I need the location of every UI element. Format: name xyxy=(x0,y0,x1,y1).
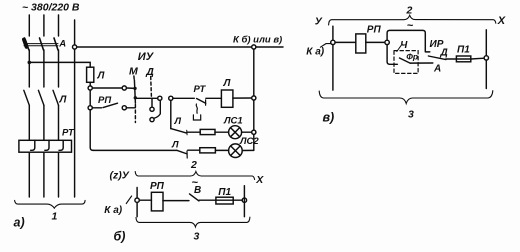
node right rail top terminal xyxy=(252,45,256,49)
switch A label xyxy=(58,38,66,49)
junction dot M bridge bottom xyxy=(134,96,137,99)
box Ch dashed xyxy=(394,51,418,74)
label LS2 xyxy=(239,136,259,147)
wire L2 mid xyxy=(43,50,45,87)
label 3 (b) xyxy=(194,231,200,243)
node row B right terminal xyxy=(122,106,126,110)
mark slash to a) (v) xyxy=(320,44,330,48)
wire LS2 mid-left xyxy=(188,149,200,151)
svg-text:ЛС1: ЛС1 xyxy=(223,115,243,126)
label RP contact xyxy=(98,95,111,106)
label 1 xyxy=(52,211,58,223)
svg-text:б): б) xyxy=(114,230,126,244)
wire control tap horizontal xyxy=(29,62,90,67)
svg-text:ЛС2: ЛС2 xyxy=(239,136,259,147)
thermal relay RT divider 1 xyxy=(31,140,35,150)
svg-text:П1: П1 xyxy=(457,45,470,56)
label 3 (v) xyxy=(408,108,414,120)
svg-text:Д: Д xyxy=(145,66,154,78)
node left terminal (b) xyxy=(135,198,139,202)
node row A right terminal xyxy=(122,86,126,90)
coil L (contactor) xyxy=(221,90,233,107)
supply label ~380/220 V xyxy=(22,2,80,14)
svg-text:2: 2 xyxy=(406,4,413,16)
wire lower branch into box (v) xyxy=(387,45,397,65)
thermal element RT xyxy=(193,104,200,120)
junction dot L1 control tap xyxy=(28,61,32,65)
annotation line 2 (v) xyxy=(329,15,496,25)
label tilde (b) xyxy=(192,177,199,189)
contact L aux LS1 tick xyxy=(186,130,188,135)
bracket 3 (v) xyxy=(319,91,493,104)
wire row A-B left link xyxy=(89,90,91,106)
svg-text:Х: Х xyxy=(255,174,264,186)
wire L3 lower xyxy=(58,105,60,140)
label P1 (v) xyxy=(457,45,470,56)
svg-text:Л: Л xyxy=(174,116,182,127)
wire LS1 right xyxy=(242,131,252,133)
contact D relay IR blade xyxy=(428,56,446,60)
label RT xyxy=(62,128,75,139)
wire (v) coil to junction xyxy=(366,41,385,43)
svg-text:ИУ: ИУ xyxy=(138,51,155,63)
label L main contacts xyxy=(59,95,68,106)
wire L3 bottom xyxy=(58,152,60,197)
wire (b) coil to switch xyxy=(163,200,189,202)
svg-text:РП: РП xyxy=(150,181,165,192)
svg-text:Х: Х xyxy=(497,15,506,27)
label X (b) xyxy=(255,174,264,186)
wire L2 bottom xyxy=(43,152,45,197)
wire bypass top (v) xyxy=(387,30,430,52)
switch A tie bar xyxy=(24,43,58,45)
node D button terminal upper xyxy=(150,107,154,111)
label U (v) xyxy=(315,16,323,28)
node neutral terminal xyxy=(73,45,77,49)
button M actuator dashed bottom xyxy=(134,105,136,123)
label D xyxy=(145,66,154,78)
svg-text:РП: РП xyxy=(98,95,111,106)
button D actuator dashed xyxy=(150,77,153,97)
wire L3 mid xyxy=(58,50,60,87)
svg-text:1: 1 xyxy=(52,211,58,223)
wire L1 mid xyxy=(28,50,30,87)
coil RP (b) xyxy=(151,192,163,211)
resistor LS2 xyxy=(200,148,216,153)
svg-text:3: 3 xyxy=(408,108,414,120)
wire D button drop xyxy=(151,98,153,107)
svg-text:П1: П1 xyxy=(218,187,231,198)
wire top line to K b) or v) xyxy=(77,46,283,48)
svg-text:РП: РП xyxy=(367,24,382,35)
lamp LS2 xyxy=(229,144,243,158)
wire row C to RT contact xyxy=(173,97,194,99)
svg-text:К а): К а) xyxy=(104,205,122,216)
wire LS1 mid xyxy=(215,131,229,133)
wire row B to M column xyxy=(126,107,135,109)
svg-text:Д: Д xyxy=(440,47,448,58)
wire L1 bottom xyxy=(28,152,30,197)
svg-text:В: В xyxy=(194,185,201,196)
wire right rail (b) xyxy=(243,186,245,217)
wire neutral L4 xyxy=(74,20,76,197)
contact RT tick xyxy=(205,100,207,105)
thermal relay RT divider 3 xyxy=(59,140,63,150)
node row C terminal 2 xyxy=(169,96,173,100)
label K a) (v) xyxy=(306,47,324,58)
wire right rail (v) xyxy=(485,30,487,56)
switch A blade 2 xyxy=(40,38,44,50)
resistor LS1 xyxy=(200,129,215,134)
fuse L (control) xyxy=(87,67,94,82)
label a) xyxy=(14,216,25,230)
wire left rail down to LS2 branch xyxy=(90,110,93,150)
svg-text:А: А xyxy=(58,38,66,49)
wire L2 lower xyxy=(43,105,45,140)
label RP (v) xyxy=(367,24,382,35)
button M actuator dashed top xyxy=(133,76,135,80)
mark leader Ch xyxy=(397,45,402,52)
contact D button blade xyxy=(154,101,161,118)
wire D contact to fuse xyxy=(446,58,457,60)
node row A left terminal xyxy=(88,86,92,90)
label P1 (b) xyxy=(218,187,231,198)
node D button terminal lower xyxy=(150,118,154,122)
button M bridge solid xyxy=(134,80,135,103)
node right rail coil terminal xyxy=(252,96,256,100)
wire RT to coil L xyxy=(206,97,222,99)
wire phase L2 top xyxy=(43,15,45,36)
switch A blade 1 with handle xyxy=(25,38,29,50)
label IU xyxy=(138,51,155,63)
wire fuse to row A xyxy=(89,82,91,86)
switch A blade 3 xyxy=(54,38,58,50)
svg-text:К а): К а) xyxy=(306,47,324,58)
svg-text:РТ: РТ xyxy=(194,84,207,95)
svg-text:Л: Л xyxy=(171,139,179,150)
label IR xyxy=(430,39,444,50)
wire out of box to node A xyxy=(410,62,433,64)
label (z)U xyxy=(110,170,130,182)
svg-text:РТ: РТ xyxy=(62,128,75,139)
thermal relay RT divider 2 xyxy=(45,140,49,150)
label K b) ili v) xyxy=(233,35,282,46)
wire row B left stub xyxy=(92,107,101,109)
node right rail LS1 terminal xyxy=(252,130,256,134)
label V xyxy=(194,185,201,196)
svg-text:2: 2 xyxy=(190,159,197,171)
svg-text:У: У xyxy=(315,16,323,28)
contact RP blade xyxy=(103,103,118,107)
node right terminal (b) xyxy=(242,198,246,202)
wire fuse to right rail (v) xyxy=(471,57,484,60)
contact L aux LS1 blade xyxy=(171,129,186,133)
contact L aux LS2 tick xyxy=(186,151,188,158)
label Ch xyxy=(400,40,408,51)
wire LS1 left xyxy=(187,131,200,133)
wire coil to right rail xyxy=(233,97,252,99)
fuse P1 (v) xyxy=(456,56,470,62)
wire (b) left xyxy=(139,199,151,201)
label tilde (v) xyxy=(407,20,414,32)
thermal relay RT heater block xyxy=(19,140,72,152)
wire left rail (b) xyxy=(136,188,138,217)
bracket 3 (b) xyxy=(136,217,250,227)
node row C terminal 1 xyxy=(158,96,162,100)
wire L1 lower xyxy=(28,105,30,140)
wire LS2 right xyxy=(242,149,254,151)
label b) xyxy=(114,230,126,244)
node left terminal (v) xyxy=(331,40,335,44)
junction dot M bridge top xyxy=(133,87,136,90)
label L fuse xyxy=(97,71,106,82)
node right terminal (v) xyxy=(484,56,488,60)
svg-text:3: 3 xyxy=(194,231,200,243)
wire right rail xyxy=(253,49,255,96)
wire row A to M column xyxy=(126,87,135,89)
label L coil xyxy=(223,78,232,89)
coil RP (v) xyxy=(356,34,366,53)
label K a) (b) xyxy=(104,205,122,216)
svg-text:К б) или в): К б) или в) xyxy=(233,35,282,46)
contactor L main contact 2 xyxy=(38,90,44,105)
wire left rail (v) xyxy=(332,26,334,90)
wire row C from M to D button xyxy=(135,97,157,99)
label X (v) xyxy=(497,15,506,27)
brace cable 1 xyxy=(15,200,86,208)
contactor L main contact 3 xyxy=(53,90,59,105)
wire row A (button M circuit) xyxy=(92,87,122,89)
svg-text:~ 380/220 В: ~ 380/220 В xyxy=(22,2,80,14)
contact RT blade xyxy=(197,99,206,104)
label 2 (b) xyxy=(190,159,197,171)
node row B left terminal xyxy=(88,106,92,110)
label L aux LS2 xyxy=(171,139,179,150)
annotation line 2 (b) xyxy=(135,172,254,180)
wire (v) left xyxy=(335,41,356,43)
wire phase L3 top xyxy=(58,15,60,36)
svg-text:А: А xyxy=(433,63,441,74)
wire LS1 branch drop xyxy=(170,100,172,128)
svg-text:Л: Л xyxy=(223,78,232,89)
lamp LS1 xyxy=(229,126,242,139)
label M xyxy=(129,65,138,77)
wire LS2 row left xyxy=(93,149,177,151)
fuse P1 (b) xyxy=(216,197,233,204)
label RP (b) xyxy=(150,181,165,192)
mark slash to a) xyxy=(126,196,131,204)
svg-text:Фр: Фр xyxy=(406,52,418,62)
label A node xyxy=(433,63,441,74)
label L aux LS1 xyxy=(174,116,182,127)
label RT contact xyxy=(194,84,207,95)
label 2 (v) xyxy=(406,4,413,16)
label D (v) xyxy=(440,47,448,58)
svg-text:(z)У: (z)У xyxy=(110,170,130,182)
wire LS2 mid xyxy=(215,149,228,151)
svg-text:Л: Л xyxy=(59,95,68,106)
contact Fr blade xyxy=(400,58,411,63)
switch V blade xyxy=(190,194,199,201)
wire phase L1 top xyxy=(28,15,30,36)
wire (b) switch to fuse xyxy=(199,199,242,201)
contact L aux LS2 blade xyxy=(177,150,187,154)
svg-text:Л: Л xyxy=(97,71,106,82)
label LS1 xyxy=(223,115,243,126)
label Fr xyxy=(406,52,418,62)
contactor L main contact 1 xyxy=(24,90,30,105)
svg-text:а): а) xyxy=(14,216,25,230)
node junction (v) xyxy=(385,40,389,44)
label v) xyxy=(323,110,335,124)
svg-text:в): в) xyxy=(323,110,335,124)
